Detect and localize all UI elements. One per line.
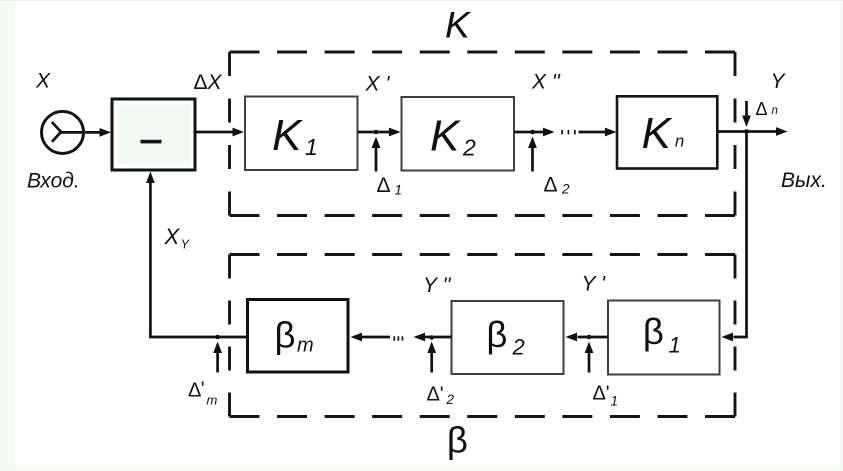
svg-text:Y '': Y '' bbox=[423, 274, 451, 297]
wire dots to beta m bbox=[362, 336, 390, 339]
svg-text:K: K bbox=[272, 111, 303, 160]
dashed box K (forward chain) top edge bbox=[230, 51, 736, 54]
svg-text:Y ': Y ' bbox=[582, 273, 606, 296]
svg-text:Y: Y bbox=[771, 70, 787, 93]
arrow up Delta'm bbox=[216, 352, 219, 373]
arrow up Delta1 bbox=[375, 147, 378, 172]
svg-text:Δ: Δ bbox=[188, 380, 201, 402]
arrow down Delta n bbox=[745, 101, 748, 116]
block K1 bbox=[245, 97, 358, 171]
svg-text:X: X bbox=[35, 70, 51, 93]
svg-text:n: n bbox=[675, 133, 684, 151]
svg-text:X '': X '' bbox=[531, 71, 561, 94]
block Kn bbox=[617, 96, 717, 168]
svg-text:Вых.: Вых. bbox=[781, 169, 827, 192]
svg-text:1: 1 bbox=[669, 333, 681, 358]
svg-text:Δ: Δ bbox=[593, 383, 606, 405]
arrow up Delta2 bbox=[531, 147, 534, 172]
svg-text:Δ: Δ bbox=[377, 174, 391, 197]
svg-text:X: X bbox=[164, 224, 181, 249]
svg-text:β: β bbox=[643, 311, 664, 352]
dashed box beta right edge bbox=[734, 255, 737, 417]
svg-text:Вход.: Вход. bbox=[27, 169, 80, 192]
node before beta m bbox=[215, 335, 220, 340]
svg-text:2: 2 bbox=[561, 182, 570, 197]
node after beta2 bbox=[429, 335, 434, 340]
source circle (input generator) bbox=[42, 111, 84, 153]
svg-text:2: 2 bbox=[462, 135, 476, 161]
node after K2 bbox=[530, 130, 535, 135]
svg-text:β: β bbox=[275, 314, 296, 355]
svg-text:K: K bbox=[430, 112, 461, 161]
output node bbox=[744, 129, 749, 134]
wire source to minus block bbox=[61, 131, 101, 134]
node after beta1 bbox=[587, 335, 592, 340]
svg-text:Δ: Δ bbox=[427, 384, 440, 406]
feedback wire down and into beta1 bbox=[734, 132, 747, 338]
arrow up Delta'1 bbox=[588, 352, 591, 373]
svg-text:X ': X ' bbox=[365, 73, 391, 96]
dashed box beta (feedback chain) top edge bbox=[230, 253, 736, 256]
ellipsis dots top bbox=[561, 130, 563, 134]
svg-text:': ' bbox=[606, 383, 610, 405]
dashed box K bottom edge bbox=[230, 214, 736, 217]
feedback wire beta m to minus block bbox=[150, 183, 247, 338]
svg-text:m: m bbox=[297, 335, 314, 357]
output wire from Kn bbox=[717, 130, 776, 133]
svg-text:2: 2 bbox=[446, 392, 455, 407]
svg-text:β: β bbox=[486, 314, 507, 355]
ellipsis dots bottom bbox=[393, 336, 395, 340]
comparator block (minus) bbox=[112, 99, 195, 170]
dashed box K right edge bbox=[734, 52, 737, 216]
svg-text:n: n bbox=[772, 105, 778, 117]
wire K1 to K2 bbox=[358, 131, 390, 134]
svg-text:Δ: Δ bbox=[756, 99, 768, 119]
source fork symbol bbox=[52, 122, 61, 142]
svg-text:Y: Y bbox=[181, 237, 191, 252]
dashed box beta bottom edge bbox=[230, 415, 736, 418]
svg-text:Δ: Δ bbox=[544, 174, 558, 197]
svg-text:1: 1 bbox=[305, 134, 318, 160]
block beta m bbox=[248, 300, 349, 373]
svg-text:1: 1 bbox=[611, 394, 619, 409]
dashed box beta left edge bbox=[228, 255, 231, 417]
wire dots to Kn bbox=[579, 131, 606, 134]
svg-text:ΔX: ΔX bbox=[194, 71, 223, 94]
wire beta1 to beta2 bbox=[578, 336, 609, 339]
node after K1 bbox=[374, 130, 379, 135]
arrow up Delta'2 bbox=[430, 352, 433, 373]
block K2 bbox=[402, 97, 515, 171]
svg-text:β: β bbox=[447, 420, 468, 461]
svg-text:1: 1 bbox=[395, 183, 403, 198]
dashed box K left edge bbox=[228, 52, 231, 216]
minus sign bbox=[141, 140, 162, 144]
short arrow after node beta2 bbox=[425, 336, 452, 339]
svg-text:': ' bbox=[201, 379, 205, 401]
svg-text:K: K bbox=[642, 109, 673, 158]
svg-text:': ' bbox=[440, 384, 444, 406]
svg-text:m: m bbox=[207, 393, 218, 408]
block beta2 bbox=[452, 301, 564, 374]
svg-text:2: 2 bbox=[512, 335, 525, 360]
svg-text:K: K bbox=[445, 5, 472, 46]
block beta1 bbox=[608, 301, 720, 375]
short arrow after node K2 bbox=[514, 131, 544, 134]
wire minus block to K1 bbox=[197, 131, 234, 134]
